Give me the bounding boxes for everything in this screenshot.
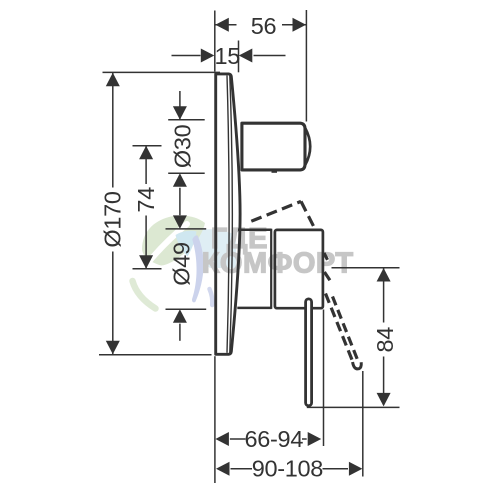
svg-text:84: 84 (372, 327, 398, 353)
watermark logo lavender wisp (210, 289, 213, 305)
extension line cylinder right (323, 310, 325, 447)
dimension 74 bottom arrow (139, 255, 153, 269)
dimension 30 line (179, 91, 181, 215)
svg-text:Ø30: Ø30 (170, 124, 196, 168)
dimension 90-108 right arrow (349, 462, 363, 476)
escutcheon plate outline (216, 74, 240, 354)
svg-text:74: 74 (133, 187, 159, 213)
tick 74 bottom (133, 268, 162, 270)
dimension 49 top arrow (173, 215, 187, 229)
dashed lever sliver dash upper (324, 253, 328, 260)
dimension 15 right arrow (239, 49, 253, 63)
dimension 30 bottom arrow (173, 173, 187, 187)
dashed lever right edge (333, 297, 359, 362)
extension line wall bottom (214, 356, 216, 483)
dashed lever left edge (326, 294, 353, 362)
dimension 66-94 right arrow (308, 432, 322, 446)
svg-text:15: 15 (215, 43, 241, 69)
dimension 84 line (383, 268, 385, 405)
dimension 170 bottom arrow (106, 341, 120, 355)
dimension 90-108 line (231, 468, 349, 470)
extension line wall top (214, 11, 216, 72)
watermark logo green bottom crescent (133, 281, 156, 309)
dimension 74 line (145, 146, 147, 269)
dashed lever tip hook (353, 362, 362, 369)
plate inner seam line B (230, 76, 233, 353)
dimension 170 line (112, 73, 114, 354)
dimension 90-108 left arrow (216, 462, 230, 476)
dimension 66-94 line (230, 438, 307, 440)
dimension 49 tail line (179, 324, 181, 341)
plate inner seam line A (227, 76, 229, 353)
svg-text:66-94: 66-94 (244, 426, 303, 452)
dimension 56 left arrow (215, 18, 229, 32)
dimension 15 left arrow (201, 49, 215, 63)
dimension 56 right arrow (293, 18, 307, 32)
dimension 74 top arrow (139, 146, 153, 160)
cartridge cap bulge (305, 128, 310, 165)
dashed handle rotated top edge (251, 201, 301, 221)
watermark logo green leaf (142, 216, 205, 266)
dimension 84 top arrow (377, 268, 391, 282)
lever rod (306, 299, 312, 406)
handle adapter top edge (238, 229, 272, 232)
dashed handle rotated right edge (301, 201, 314, 227)
handle cylinder (275, 230, 323, 308)
tick 30 top (168, 119, 205, 121)
extension line plate top (103, 71, 221, 73)
handle adapter right edge (270, 229, 272, 309)
dimension 15 line (172, 55, 286, 57)
cartridge box outline (242, 123, 305, 170)
watermark logo lavender swoosh (192, 235, 204, 302)
tick 74 top (133, 145, 162, 147)
tick 30 bottom (168, 172, 205, 174)
svg-text:90-108: 90-108 (252, 456, 324, 482)
dimension 30 top arrow (173, 106, 187, 120)
watermark logo white band (147, 224, 187, 264)
cartridge nub (272, 170, 278, 173)
extension line plate front (238, 41, 240, 73)
extension line box right (305, 10, 307, 122)
svg-text:56: 56 (251, 13, 277, 39)
svg-text:Ø49: Ø49 (168, 242, 194, 286)
svg-text:КОМФОРТ: КОМФОРТ (202, 247, 354, 279)
dimension 56 line (215, 24, 306, 26)
handle adapter bottom edge (237, 307, 271, 310)
extension line 84 top (332, 267, 400, 269)
dimension 49 bottom arrow (173, 309, 187, 323)
dimension 84 bottom arrow (377, 393, 391, 407)
tick 49 bottom (166, 308, 207, 310)
tick 49 top (166, 228, 207, 230)
extension line lever tip (362, 371, 364, 477)
dimension 170 top arrow (106, 73, 120, 87)
svg-text:Ø170: Ø170 (99, 191, 125, 248)
dashed lever single dash (324, 272, 330, 280)
watermark logo cyan wash (194, 229, 236, 268)
extension line 84 bottom (307, 406, 400, 408)
watermark logo cyan sail (176, 231, 197, 257)
extension line plate bottom (99, 354, 212, 356)
dimension 66-94 left arrow (215, 432, 229, 446)
